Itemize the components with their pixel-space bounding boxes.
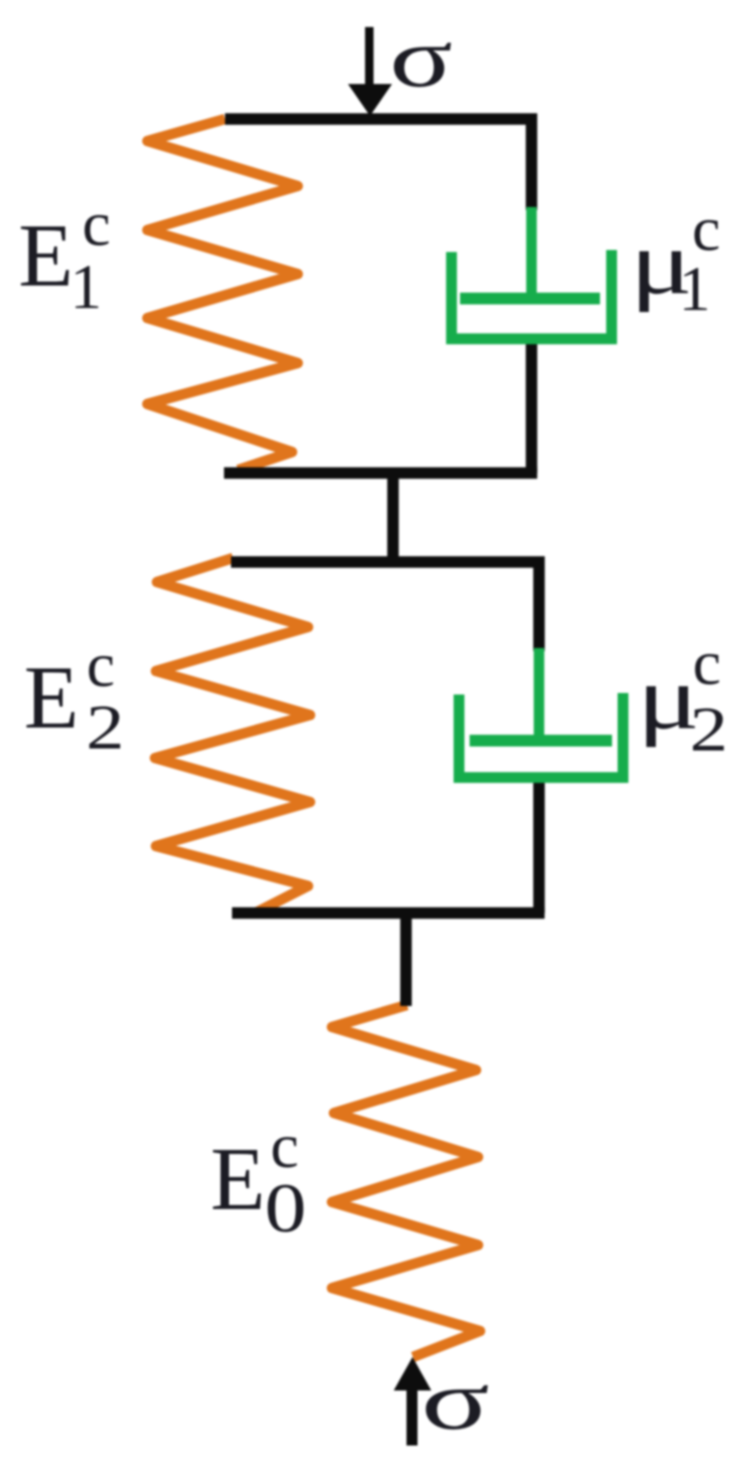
svg-text:E: E — [18, 207, 73, 306]
svg-text:0: 0 — [265, 1169, 307, 1247]
svg-text:E: E — [24, 649, 79, 748]
svg-text:1: 1 — [70, 251, 102, 322]
svg-text:c: c — [82, 188, 110, 259]
svg-text:c: c — [693, 627, 721, 698]
svg-text:c: c — [87, 629, 115, 700]
svg-text:σ: σ — [421, 1353, 490, 1447]
svg-text:E: E — [210, 1130, 265, 1229]
svg-text:2: 2 — [86, 693, 124, 764]
svg-text:2: 2 — [690, 694, 728, 765]
svg-text:1: 1 — [679, 253, 711, 324]
svg-text:σ: σ — [390, 11, 453, 105]
